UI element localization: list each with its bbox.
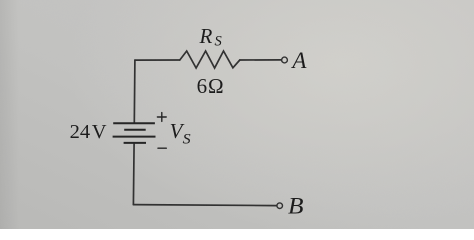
battery VS plate long top — [113, 122, 155, 124]
battery VS plate short — [124, 129, 146, 131]
wire bottom segment — [133, 205, 276, 206]
battery VS plate long — [113, 136, 156, 138]
svg-text:S: S — [183, 131, 192, 147]
svg-text:R: R — [199, 24, 213, 48]
plus sign polarity — [157, 116, 166, 118]
svg-text:B: B — [288, 193, 304, 218]
resistor RS zigzag — [180, 51, 240, 68]
wire left vertical upper — [133, 60, 136, 123]
svg-text:Ω: Ω — [208, 74, 224, 98]
minus sign polarity — [158, 147, 166, 149]
svg-text:6: 6 — [197, 74, 208, 98]
svg-text:V: V — [92, 121, 107, 143]
battery VS plate short bottom — [124, 142, 146, 144]
wire top-left segment — [135, 59, 180, 61]
wire left vertical lower — [132, 143, 135, 205]
svg-text:24: 24 — [70, 121, 91, 143]
svg-text:A: A — [290, 48, 307, 73]
node A terminal circle — [282, 57, 288, 63]
node B terminal circle — [277, 203, 283, 209]
svg-text:S: S — [215, 34, 223, 50]
wire top-right segment — [240, 59, 282, 61]
